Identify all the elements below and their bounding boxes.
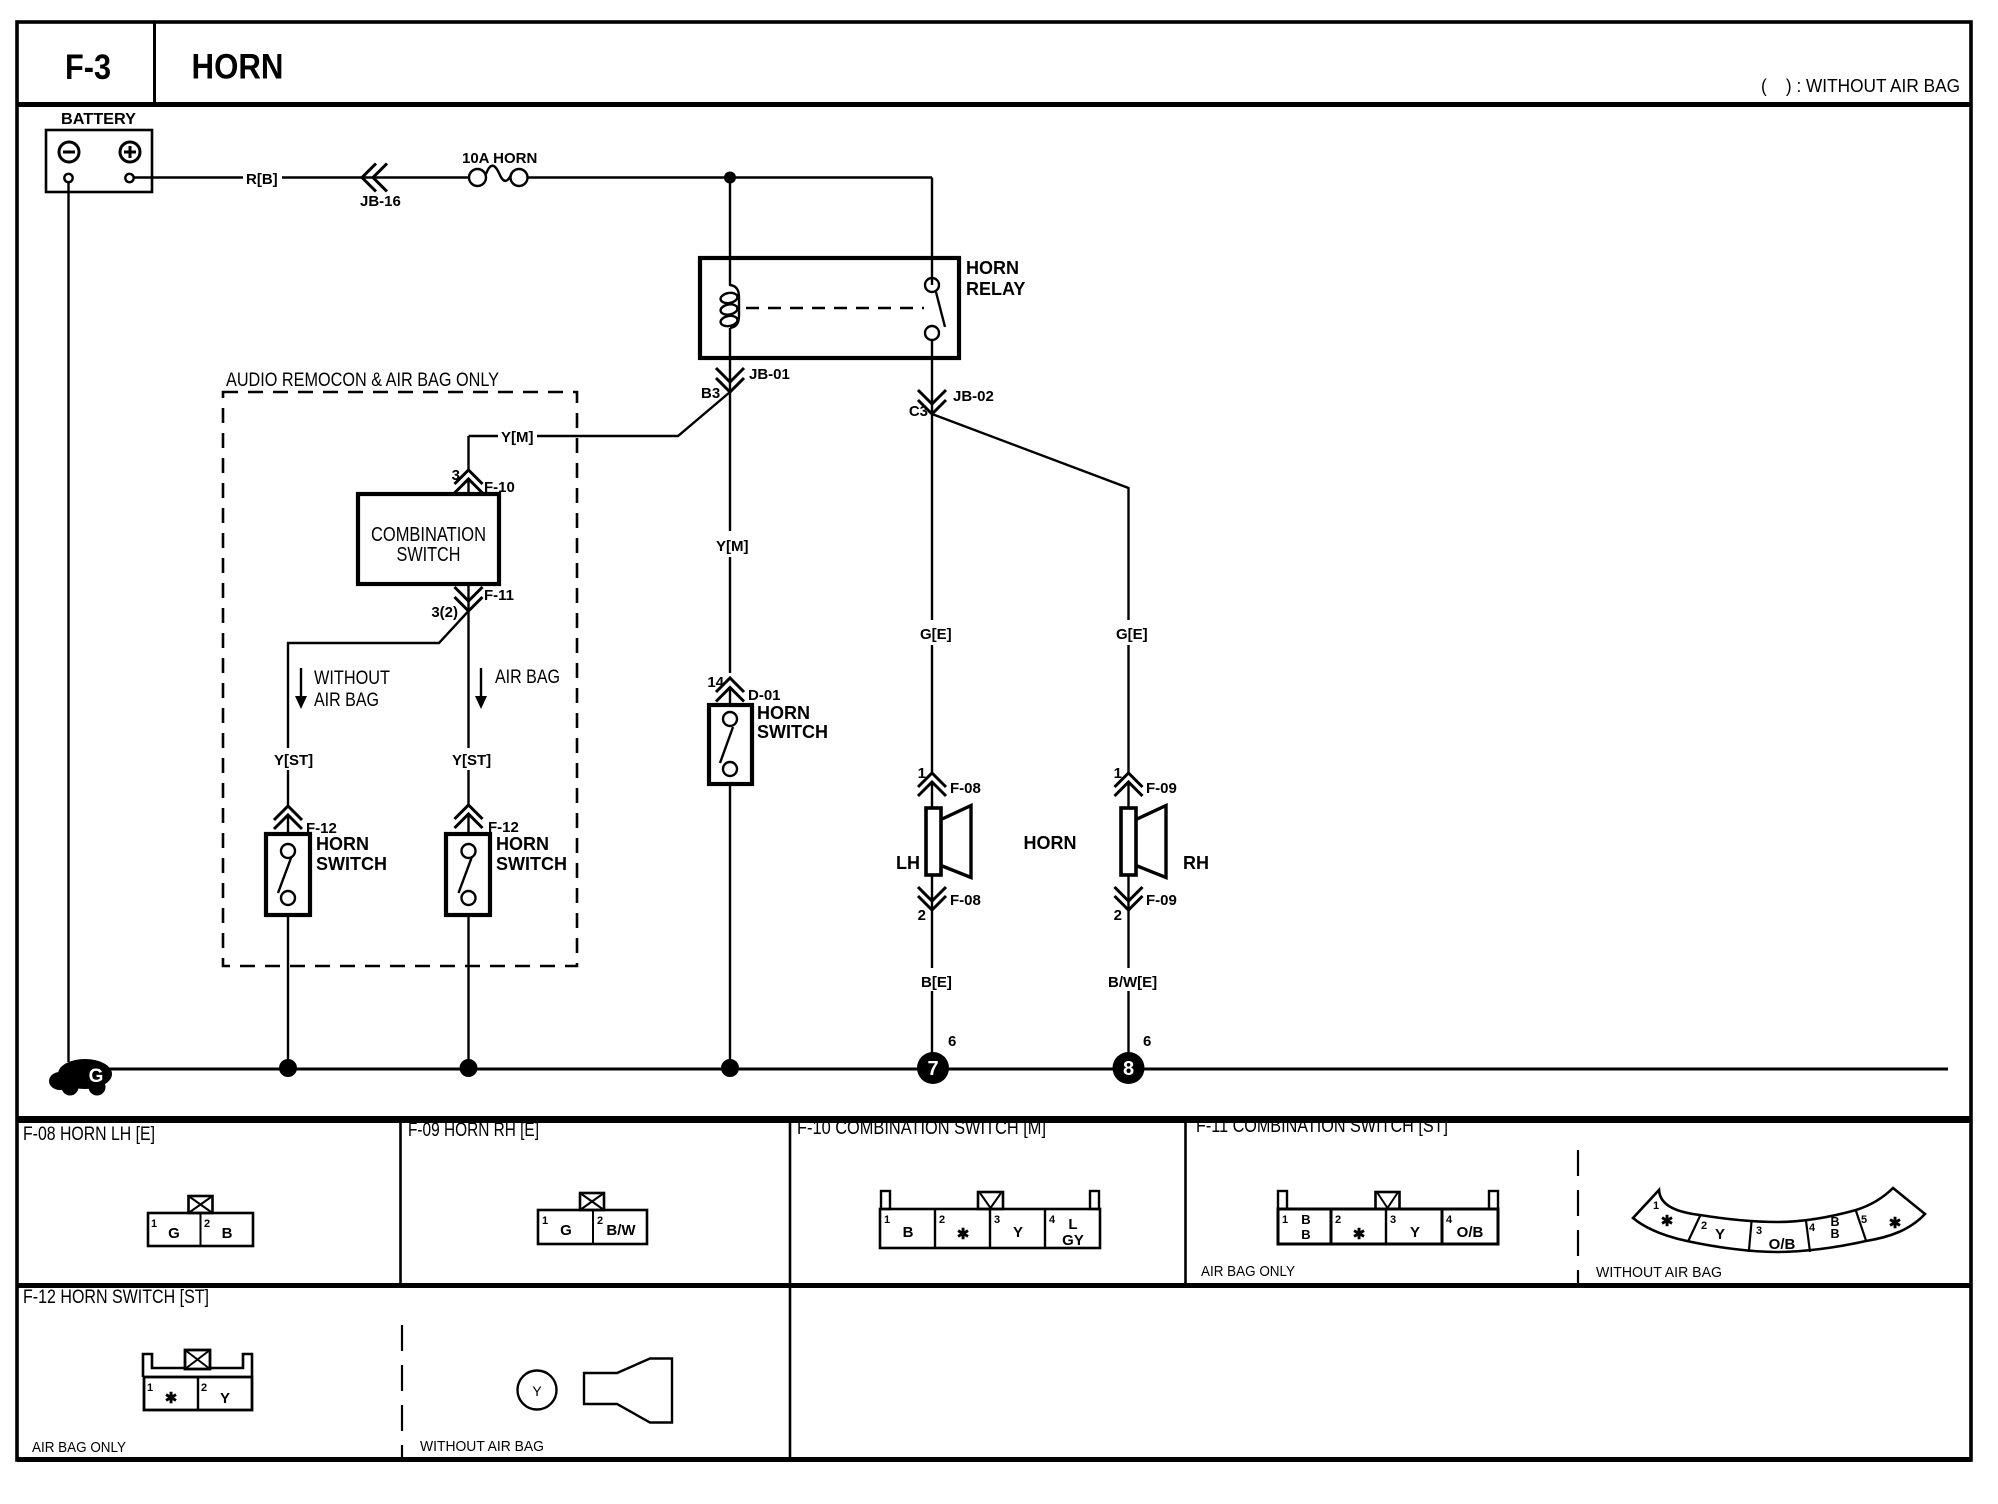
wire JB-01 down (horn switch branch)	[729, 392, 731, 673]
svg-text:F-11: F-11	[484, 587, 514, 604]
wire JB-01 to combination switch (Y[M])	[469, 392, 731, 470]
svg-text:L: L	[1068, 1216, 1077, 1233]
ground bus	[60, 1068, 1948, 1071]
connector view F-12 without air bag (terminal)	[420, 1359, 672, 1456]
connector F-12 left	[274, 806, 337, 837]
svg-text:RH: RH	[1183, 853, 1209, 873]
svg-text:✱: ✱	[1661, 1213, 1674, 1230]
svg-text:2: 2	[1701, 1220, 1707, 1232]
svg-text:✱: ✱	[1889, 1215, 1902, 1232]
node G[E] RH	[1116, 626, 1148, 643]
arrow WITHOUT AIR BAG	[295, 668, 390, 711]
horn RH LS2	[1121, 806, 1209, 878]
table header F-10	[797, 1118, 1046, 1139]
svg-text:WITHOUT AIR BAG: WITHOUT AIR BAG	[1596, 1265, 1722, 1281]
svg-text:G[E]: G[E]	[920, 626, 952, 643]
connector view F-11	[1201, 1191, 1498, 1280]
svg-text:AUDIO REMOCON & AIR BAG ONLY: AUDIO REMOCON & AIR BAG ONLY	[226, 370, 499, 391]
wire battery+ to fuse	[134, 176, 470, 178]
svg-text:1: 1	[884, 1214, 890, 1226]
svg-text:HORN: HORN	[316, 834, 369, 854]
ground symbol G (car body)	[49, 182, 112, 1096]
table borders	[17, 1116, 1971, 1460]
combination switch U1	[358, 494, 499, 584]
wire G[E] LH down	[931, 645, 933, 773]
table header F-12	[23, 1287, 209, 1308]
connector view F-08	[148, 1196, 253, 1246]
svg-text:3(2): 3(2)	[431, 604, 458, 621]
wire fuse to relay	[527, 178, 933, 287]
wire Y[ST] right	[467, 770, 469, 805]
wire JB-02 to RH column	[932, 414, 1129, 620]
connector view F-11 without air bag (arc)	[1596, 1188, 1925, 1281]
svg-text:Y[ST]: Y[ST]	[452, 752, 491, 769]
connector view F-10	[880, 1191, 1100, 1249]
svg-text:B3: B3	[701, 385, 720, 402]
title block F-3	[17, 22, 1971, 105]
ground node 7	[917, 1033, 956, 1084]
svg-text:COMBINATION: COMBINATION	[371, 524, 486, 546]
svg-text:Y: Y	[1715, 1226, 1725, 1243]
svg-text:1: 1	[1282, 1214, 1288, 1226]
svg-text:F-11 COMBINATION SWITCH [ST]: F-11 COMBINATION SWITCH [ST]	[1196, 1116, 1448, 1137]
svg-text:6: 6	[1143, 1033, 1151, 1050]
ground node 8	[1113, 1033, 1152, 1084]
svg-text:3: 3	[994, 1214, 1000, 1226]
svg-text:F-08 HORN LH [E]: F-08 HORN LH [E]	[23, 1124, 155, 1145]
table header F-11	[1196, 1116, 1448, 1137]
svg-text:Y: Y	[532, 1383, 542, 1399]
svg-text:✱: ✱	[957, 1226, 970, 1243]
connector F-09 pin 2	[1114, 875, 1177, 968]
svg-text:GY: GY	[1062, 1232, 1084, 1249]
svg-text:10A HORN: 10A HORN	[462, 150, 537, 167]
svg-text:2: 2	[597, 1215, 603, 1227]
svg-text:B/W: B/W	[606, 1222, 636, 1239]
wire B[E] to ground 7	[931, 991, 933, 1054]
svg-text:F-08: F-08	[950, 780, 981, 797]
svg-text:Y[ST]: Y[ST]	[274, 752, 313, 769]
relay K1 horn relay	[700, 258, 1025, 358]
svg-text:3: 3	[452, 467, 460, 484]
svg-text:F-12 HORN SWITCH [ST]: F-12 HORN SWITCH [ST]	[23, 1287, 209, 1308]
fuse 10A HORN	[462, 150, 537, 186]
svg-text:7: 7	[927, 1058, 938, 1080]
arrow AIR BAG	[475, 667, 560, 709]
svg-text:O/B: O/B	[1457, 1224, 1484, 1241]
svg-text:Y[M]: Y[M]	[716, 538, 749, 555]
junction dot left switch	[279, 1059, 297, 1077]
connector F-08 pin 2	[918, 875, 981, 968]
svg-text:B: B	[903, 1224, 914, 1241]
svg-text:AIR BAG ONLY: AIR BAG ONLY	[1201, 1264, 1295, 1280]
svg-text:4: 4	[1049, 1214, 1056, 1226]
svg-text:2: 2	[201, 1382, 207, 1394]
svg-text:3: 3	[1756, 1225, 1762, 1237]
svg-text:5: 5	[1861, 1214, 1867, 1226]
wire relay coil to JB-01	[729, 358, 731, 392]
table header F-09	[408, 1120, 539, 1141]
svg-text:1: 1	[1653, 1200, 1659, 1212]
svg-text:G: G	[560, 1222, 572, 1239]
node R[B]	[246, 171, 278, 188]
svg-text:Y[M]: Y[M]	[501, 429, 534, 446]
svg-text:2: 2	[1335, 1214, 1341, 1226]
node B[E]	[921, 974, 952, 991]
svg-text:2: 2	[939, 1214, 945, 1226]
connector F-12 right	[455, 805, 519, 836]
svg-text:B: B	[1830, 1227, 1839, 1241]
dashed group box AUDIO REMOCON & AIR BAG ONLY	[223, 370, 577, 966]
svg-text:SWITCH: SWITCH	[397, 544, 461, 566]
svg-text:✱: ✱	[1353, 1226, 1366, 1243]
svg-text:F-09: F-09	[1146, 892, 1177, 909]
svg-text:LH: LH	[896, 853, 920, 873]
svg-text:1: 1	[151, 1218, 157, 1230]
horn LH LS1	[896, 806, 971, 878]
table header F-08	[23, 1124, 155, 1145]
svg-text:1: 1	[1114, 765, 1122, 782]
wire SW2 to ground bus	[467, 915, 469, 1068]
horn switch SW3 (main)	[709, 703, 828, 784]
battery B1	[46, 111, 152, 192]
svg-text:G: G	[168, 1225, 180, 1242]
junction dot right switch	[460, 1059, 478, 1077]
wire F-11 split to left branch	[288, 611, 469, 748]
svg-text:1: 1	[918, 765, 926, 782]
svg-text:AIR BAG ONLY: AIR BAG ONLY	[32, 1440, 126, 1456]
svg-text:F-08: F-08	[950, 892, 981, 909]
svg-text:( ) : WITHOUT AIR BAG: ( ) : WITHOUT AIR BAG	[1761, 76, 1960, 96]
svg-text:JB-16: JB-16	[360, 193, 401, 210]
wire JB-02 down LH column	[931, 414, 933, 620]
node Y[M]	[501, 429, 534, 446]
connector F-10 pin 3	[452, 467, 515, 496]
wire G[E] RH down	[1127, 645, 1129, 773]
svg-text:B: B	[1301, 1227, 1310, 1242]
connector F-11 pin 3(2)	[431, 584, 514, 621]
svg-text:B: B	[222, 1225, 233, 1242]
junction dot main switch	[721, 1059, 739, 1077]
svg-text:F-09 HORN RH [E]: F-09 HORN RH [E]	[408, 1120, 539, 1141]
svg-text:C3: C3	[909, 403, 928, 420]
svg-text:4: 4	[1446, 1214, 1453, 1226]
connector D-01 pin 14	[707, 674, 780, 705]
svg-text:AIR BAG: AIR BAG	[495, 667, 560, 688]
svg-text:HORN: HORN	[757, 703, 810, 723]
svg-text:HORN: HORN	[496, 834, 549, 854]
svg-text:BATTERY: BATTERY	[61, 111, 136, 128]
node G[E] LH	[920, 626, 952, 643]
wire F-11 down right branch	[467, 611, 469, 748]
horn switch SW2 (air bag)	[446, 834, 567, 915]
svg-text:F-09: F-09	[1146, 780, 1177, 797]
svg-text:WITHOUT: WITHOUT	[314, 668, 390, 689]
note: without air bag legend	[1761, 76, 1960, 96]
svg-text:JB-01: JB-01	[749, 366, 790, 383]
svg-text:6: 6	[948, 1033, 956, 1050]
label HORN center	[1024, 833, 1077, 853]
svg-text:2: 2	[204, 1218, 210, 1230]
svg-text:F-3: F-3	[65, 48, 111, 87]
node Y[M] vertical	[716, 538, 749, 555]
svg-text:G[E]: G[E]	[1116, 626, 1148, 643]
horn switch SW1 (without air bag)	[266, 834, 387, 915]
junction dot	[724, 172, 736, 184]
svg-text:3: 3	[1390, 1214, 1396, 1226]
connector JB-16	[360, 164, 401, 211]
wire SW3 to ground bus	[729, 784, 731, 1068]
svg-text:RELAY: RELAY	[966, 279, 1025, 299]
svg-text:Y: Y	[1410, 1224, 1420, 1241]
svg-text:SWITCH: SWITCH	[496, 854, 567, 874]
svg-text:Y: Y	[1013, 1224, 1023, 1241]
svg-text:D-01: D-01	[748, 687, 781, 704]
svg-text:G: G	[89, 1066, 104, 1087]
svg-text:B: B	[1301, 1212, 1310, 1227]
node Y[ST] left	[274, 752, 313, 769]
svg-text:SWITCH: SWITCH	[757, 722, 828, 742]
svg-text:R[B]: R[B]	[246, 171, 278, 188]
svg-text:JB-02: JB-02	[953, 388, 994, 405]
svg-text:F-10 COMBINATION SWITCH [M]: F-10 COMBINATION SWITCH [M]	[797, 1118, 1046, 1139]
svg-text:B/W[E]: B/W[E]	[1108, 974, 1157, 991]
wire B/W[E] to ground 8	[1127, 991, 1129, 1054]
svg-text:O/B: O/B	[1769, 1236, 1796, 1253]
svg-text:SWITCH: SWITCH	[316, 854, 387, 874]
svg-text:2: 2	[1114, 907, 1122, 924]
connector F-09 pin 1	[1114, 765, 1177, 808]
svg-text:HORN: HORN	[1024, 833, 1077, 853]
svg-text:B[E]: B[E]	[921, 974, 952, 991]
svg-text:1: 1	[542, 1215, 548, 1227]
svg-text:8: 8	[1123, 1058, 1134, 1080]
svg-text:2: 2	[918, 907, 926, 924]
connector F-08 pin 1	[918, 765, 981, 808]
node B/W[E]	[1108, 974, 1157, 991]
svg-text:AIR BAG: AIR BAG	[314, 690, 379, 711]
wire Y[ST] left	[287, 770, 289, 806]
svg-text:4: 4	[1809, 1222, 1816, 1234]
node Y[ST] right	[452, 752, 491, 769]
wire SW1 to ground bus	[287, 915, 289, 1068]
svg-text:Y: Y	[220, 1390, 230, 1407]
connector view F-09	[538, 1193, 647, 1244]
svg-text:1: 1	[147, 1382, 153, 1394]
svg-text:HORN: HORN	[966, 258, 1019, 278]
svg-text:WITHOUT AIR BAG: WITHOUT AIR BAG	[420, 1439, 544, 1455]
svg-text:HORN: HORN	[192, 48, 284, 87]
connector JB-01 / B3	[701, 366, 790, 402]
connector JB-02 / C3	[909, 358, 994, 420]
connector view F-12	[32, 1350, 252, 1456]
svg-text:14: 14	[707, 674, 724, 691]
svg-text:✱: ✱	[165, 1390, 178, 1407]
